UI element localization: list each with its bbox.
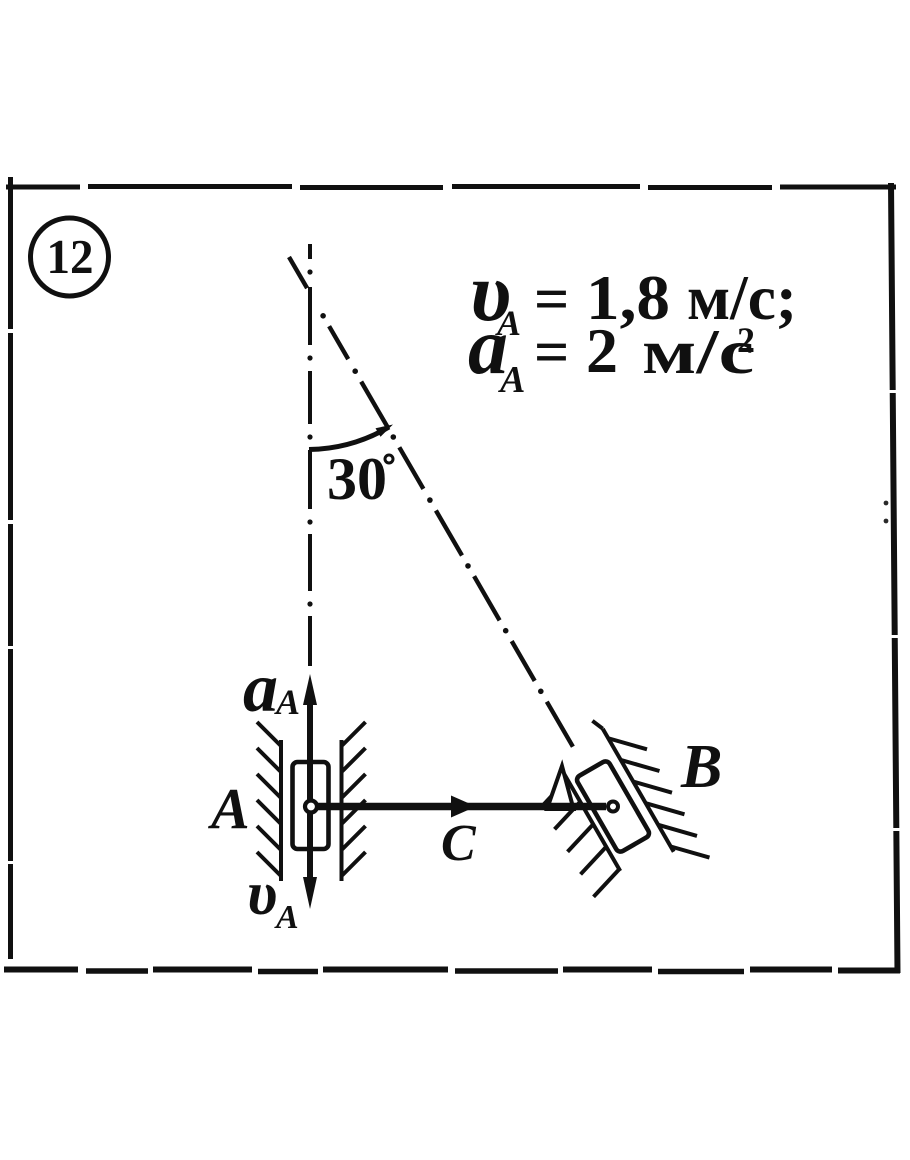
svg-text:υ: υ <box>247 860 277 928</box>
svg-text:A: A <box>274 899 299 936</box>
svg-text:A: A <box>208 776 250 841</box>
svg-text:2: 2 <box>586 315 618 386</box>
svg-text:A: A <box>498 359 525 401</box>
svg-text:12: 12 <box>47 229 94 284</box>
svg-text:2: 2 <box>737 320 755 360</box>
svg-text:a: a <box>243 650 278 727</box>
svg-text:=: = <box>534 319 569 387</box>
svg-text:30: 30 <box>327 446 387 512</box>
svg-text:C: C <box>441 815 477 872</box>
svg-text:A: A <box>274 682 300 722</box>
svg-text:B: B <box>680 733 722 801</box>
